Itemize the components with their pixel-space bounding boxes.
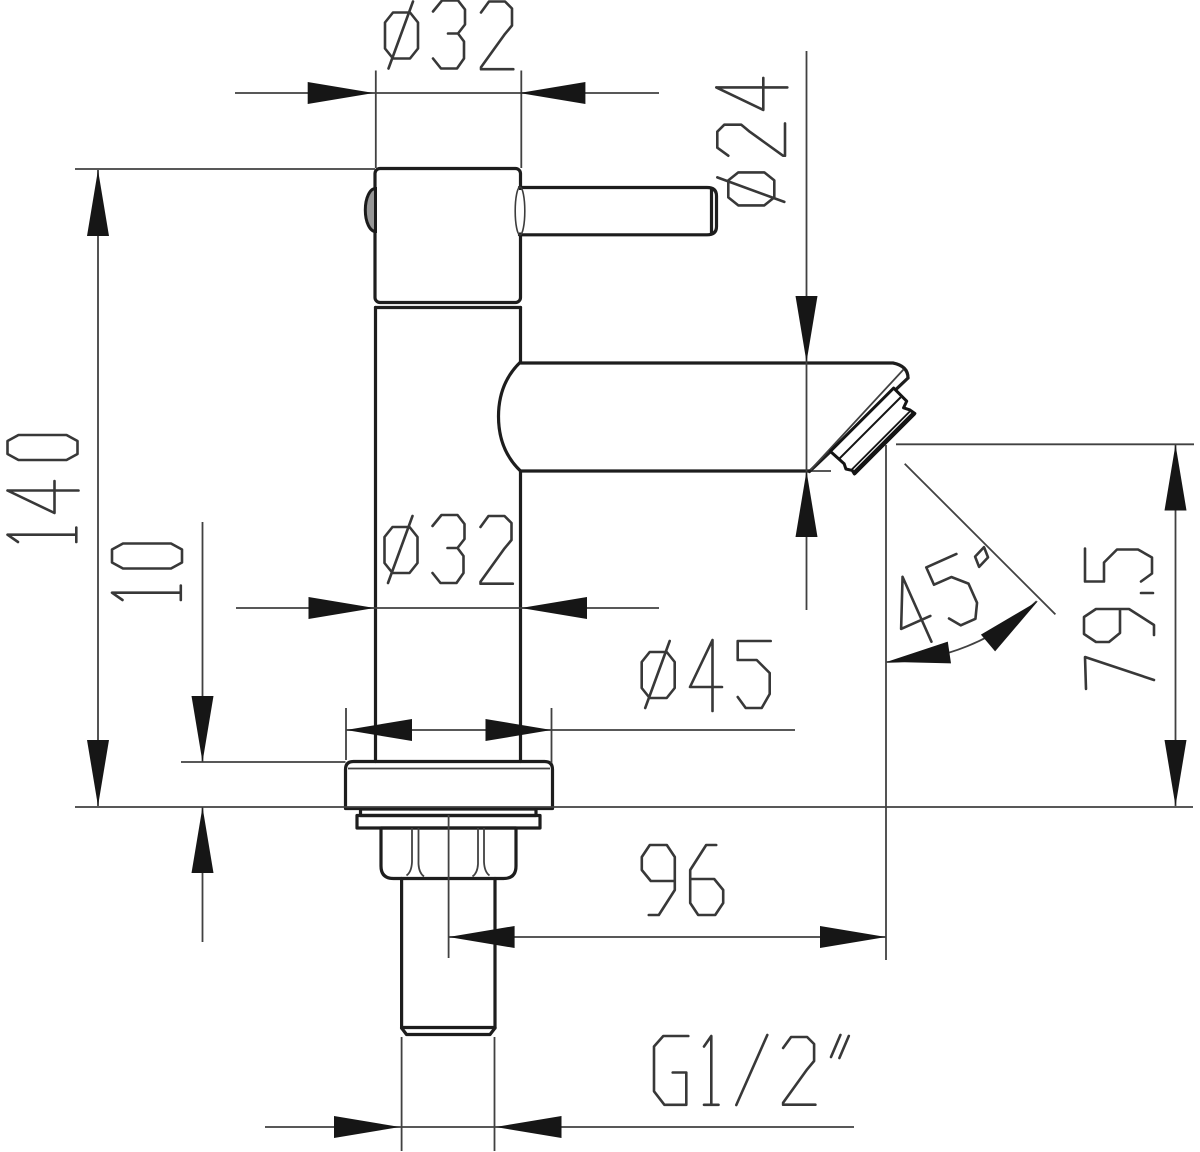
label 96 bbox=[642, 845, 723, 915]
dim 96 arrow left bbox=[449, 926, 515, 948]
dim G1/2 line bbox=[265, 1126, 854, 1128]
angle 45 arc bbox=[886, 601, 1037, 662]
dim 96 right vertical shared line bbox=[885, 445, 887, 960]
dim Ø32 top arrow right bbox=[519, 82, 585, 104]
nut bbox=[381, 828, 516, 879]
spout intersection bulge bbox=[499, 362, 521, 471]
dim Ø32 top arrow left bbox=[308, 82, 374, 104]
dim 10 arrow up bbox=[192, 807, 214, 873]
label Ø32 top bbox=[385, 1, 513, 70]
dim 96 line bbox=[449, 936, 886, 938]
dim 79.5 line bbox=[1175, 445, 1177, 807]
dim 10 line lower bbox=[202, 807, 204, 942]
label 45 degrees rotated bbox=[882, 542, 1010, 651]
threaded shank bbox=[402, 879, 495, 1035]
set screw on cap left bbox=[365, 189, 375, 232]
handle cap bbox=[375, 169, 525, 303]
dim Ø45 ext left bbox=[345, 708, 347, 760]
dim Ø45 arrow right bbox=[486, 719, 552, 741]
dim Ø32 top ext right bbox=[520, 71, 522, 169]
label 140 rotated bbox=[8, 435, 79, 542]
label G1/2 inch bbox=[654, 1035, 849, 1105]
dim 10 line upper bbox=[202, 522, 204, 762]
dim 140 line bbox=[97, 170, 99, 806]
washer 2 bbox=[357, 816, 540, 829]
dim Ø45 arrow left bbox=[346, 719, 412, 741]
body left edge bbox=[374, 308, 377, 762]
body right edge lower bbox=[519, 471, 522, 762]
dim G1/2 arrow left bbox=[334, 1116, 400, 1138]
dim G1/2 ext right bbox=[494, 1037, 496, 1151]
flange inner top line bbox=[348, 768, 550, 770]
lever root joint ellipse bbox=[515, 187, 525, 235]
lever end face line bbox=[710, 189, 713, 235]
dim 79.5 arrow up bbox=[1165, 445, 1187, 511]
angle 45 ray bbox=[905, 464, 1056, 615]
nut facet lines bbox=[407, 828, 490, 877]
label Ø45 bbox=[642, 640, 771, 711]
mounting surface line bbox=[75, 806, 1193, 808]
dim G1/2 arrow right bbox=[496, 1116, 562, 1138]
dim 96 centerline ext bbox=[448, 815, 450, 958]
dim 79.5 top extension line bbox=[896, 443, 1194, 445]
angle 45 arrow lower bbox=[887, 642, 951, 664]
flange top extension line bbox=[181, 761, 346, 763]
dim Ø24 arrow up bbox=[796, 471, 818, 537]
spout top line bbox=[521, 363, 909, 378]
angle 45 arrow upper bbox=[981, 601, 1038, 651]
dim 96 arrow right bbox=[820, 926, 886, 948]
body right edge upper bbox=[519, 308, 522, 363]
dim Ø32 top ext left bbox=[375, 71, 377, 169]
label Ø32 mid bbox=[385, 515, 513, 584]
aerator nozzle bbox=[829, 388, 917, 476]
dim Ø24 line bbox=[806, 51, 808, 610]
dim Ø45 ext right bbox=[551, 708, 553, 763]
spout cut face outer bbox=[810, 378, 909, 472]
label 79.5 rotated bbox=[1084, 549, 1154, 690]
dim Ø32 mid arrow left bbox=[309, 597, 375, 619]
handle lever bbox=[520, 188, 717, 235]
body top line bbox=[376, 306, 521, 309]
dim 79.5 arrow down bbox=[1165, 740, 1187, 806]
spout bottom tail bbox=[810, 470, 832, 472]
dim Ø45 line bbox=[346, 729, 795, 731]
label 10 rotated bbox=[112, 544, 182, 601]
flange bbox=[346, 762, 553, 809]
cap top extension line bbox=[75, 168, 375, 170]
dim 10 arrow down bbox=[192, 696, 214, 762]
dim 140 arrow down bbox=[87, 740, 109, 806]
washer 1 bbox=[361, 809, 537, 816]
dim Ø32 mid line bbox=[236, 607, 659, 609]
label Ø24 rotated bbox=[716, 78, 787, 206]
dim Ø32 top line bbox=[235, 92, 659, 94]
dim G1/2 ext left bbox=[401, 1037, 403, 1151]
dim 140 arrow up bbox=[87, 170, 109, 236]
dim Ø32 mid arrow right bbox=[521, 597, 587, 619]
dim Ø24 arrow down bbox=[796, 296, 818, 362]
spout cut face inner bbox=[811, 370, 904, 471]
spout bottom line bbox=[521, 469, 810, 472]
